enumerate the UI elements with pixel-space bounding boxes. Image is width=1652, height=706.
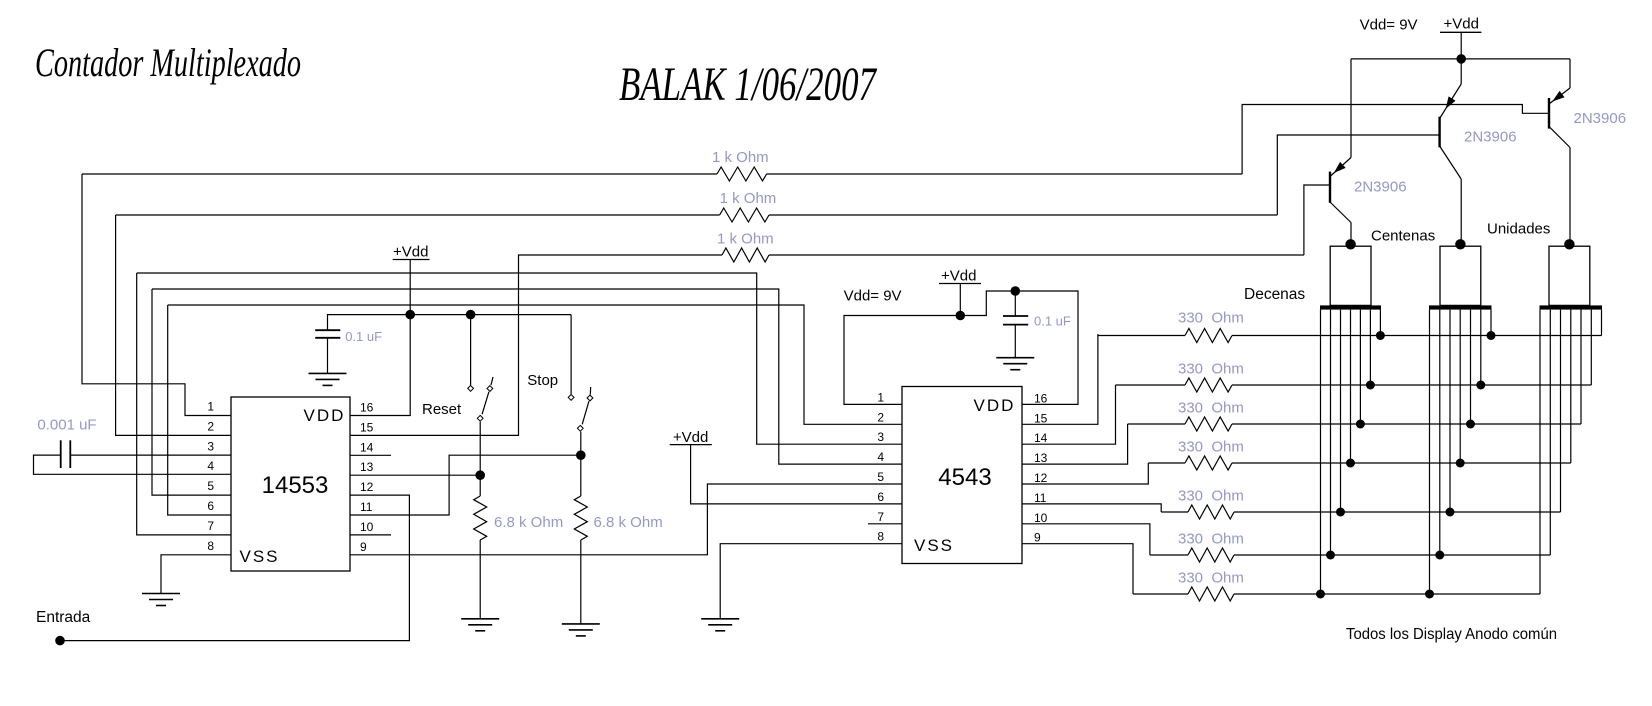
IC U2 4543 body xyxy=(902,387,1022,564)
wire +Vdd to node xyxy=(409,260,411,315)
wire U1 pin1 to row A xyxy=(82,174,231,416)
svg-text:7: 7 xyxy=(877,510,884,524)
wire Vdd node to C3 rail xyxy=(960,291,1078,404)
transistor Q1 2N3906 xyxy=(1330,158,1351,223)
svg-text:330 Ohm: 330 Ohm xyxy=(1178,531,1244,548)
svg-text:330 Ohm: 330 Ohm xyxy=(1178,310,1244,327)
svg-text:12: 12 xyxy=(360,480,374,494)
svg-text:9: 9 xyxy=(1034,531,1041,545)
svg-text:3: 3 xyxy=(207,439,214,453)
wire row6 right xyxy=(1234,554,1550,556)
ground R4 xyxy=(461,619,499,631)
wire U1 pin15 to row C xyxy=(350,255,722,435)
svg-text:16: 16 xyxy=(1034,391,1048,405)
svg-text:+Vdd: +Vdd xyxy=(673,429,708,446)
capacitor C1 0.001 uF xyxy=(61,440,71,468)
svg-text:1 k Ohm: 1 k Ohm xyxy=(717,231,774,248)
ground C2 xyxy=(309,373,347,385)
svg-text:BALAK 1/06/2007: BALAK 1/06/2007 xyxy=(619,58,877,111)
node row7 display1 xyxy=(1316,590,1325,599)
svg-text:11: 11 xyxy=(360,500,373,514)
node Entrada xyxy=(55,636,65,646)
svg-text:6: 6 xyxy=(207,499,214,513)
DS1 Decenas display xyxy=(1320,246,1381,309)
label Reset xyxy=(422,401,462,418)
node row5 display2 xyxy=(1446,508,1455,517)
svg-text:7: 7 xyxy=(207,519,214,533)
DS2 display pins xyxy=(1430,310,1492,594)
capacitor C2 0.1 uF xyxy=(315,330,340,338)
node Vdd rail xyxy=(1456,54,1466,64)
wire U2 pin9 to row7 xyxy=(1022,544,1133,594)
svg-text:Entrada: Entrada xyxy=(36,609,91,626)
wire row C right xyxy=(769,254,1304,256)
resistor R4 6.8 k Ohm xyxy=(474,496,487,540)
wire U2 pin1 to Vdd rail xyxy=(844,316,960,405)
svg-text:VDD: VDD xyxy=(974,396,1016,415)
wire row2 left xyxy=(1116,384,1186,386)
svg-text:2N3906: 2N3906 xyxy=(1574,110,1627,127)
svg-text:4: 4 xyxy=(877,450,884,464)
Q1 label 2N3906 xyxy=(1354,179,1407,196)
wire row F to U2 pin2 xyxy=(168,305,902,424)
DS2 display anode dot xyxy=(1455,239,1465,249)
svg-text:+Vdd: +Vdd xyxy=(393,244,428,261)
wire C2 to ground xyxy=(327,338,329,374)
Q3 label 2N3906 xyxy=(1574,110,1627,127)
svg-text:330 Ohm: 330 Ohm xyxy=(1178,400,1244,417)
node R5 junction xyxy=(576,450,586,460)
label Unidades xyxy=(1487,221,1550,238)
wire Q2 collector xyxy=(1460,179,1462,244)
label Vdd= 9V U2 xyxy=(844,288,902,305)
svg-text:15: 15 xyxy=(1034,411,1048,425)
wire Q1 emitter xyxy=(1350,59,1352,158)
wire U1 pin2 to row B xyxy=(116,215,231,435)
wire +Vdd to U2 pin6 xyxy=(691,445,902,504)
svg-text:+Vdd: +Vdd xyxy=(941,268,976,285)
wire U2 pin11 to row5 xyxy=(1022,504,1161,512)
svg-text:1: 1 xyxy=(207,400,214,414)
wire row7 right xyxy=(1234,593,1540,595)
svg-text:9: 9 xyxy=(360,540,367,554)
power +Vdd top xyxy=(1440,16,1481,33)
R8 value label xyxy=(1178,400,1244,417)
switch SW2 Stop xyxy=(568,387,593,431)
resistor R11 330 Ohm xyxy=(1188,548,1234,562)
svg-text:Vdd= 9V: Vdd= 9V xyxy=(844,288,902,305)
R6 value label xyxy=(1178,310,1244,327)
title Contador Multiplexado xyxy=(35,40,301,85)
R5 value label xyxy=(594,514,663,531)
svg-text:8: 8 xyxy=(207,539,214,553)
node C3 top xyxy=(1011,286,1021,296)
svg-text:13: 13 xyxy=(1034,451,1048,465)
wire U1 pin7 to row D xyxy=(137,273,231,535)
svg-text:2N3906: 2N3906 xyxy=(1354,179,1407,196)
svg-text:2: 2 xyxy=(877,410,884,424)
node Vdd U2 xyxy=(956,311,966,321)
U2 pin numbers xyxy=(877,390,1047,544)
svg-text:5: 5 xyxy=(877,470,884,484)
resistor R2 1 k Ohm xyxy=(720,208,769,222)
svg-text:Unidades: Unidades xyxy=(1487,221,1550,238)
transistor Q3 2N3906 xyxy=(1549,88,1570,148)
wire row E to U2 pin4 xyxy=(152,289,902,464)
capacitor C3 0.1 uF xyxy=(1003,316,1028,325)
svg-text:14553: 14553 xyxy=(262,472,329,499)
wire row6 left xyxy=(1150,554,1188,556)
wire U1 pin8 VSS xyxy=(161,555,231,594)
node Reset branch xyxy=(466,310,476,320)
wire U2 pin10 to row6 xyxy=(1022,524,1150,555)
svg-text:1 k Ohm: 1 k Ohm xyxy=(720,190,777,207)
svg-text:0.1 uF: 0.1 uF xyxy=(345,329,382,344)
C1 value label xyxy=(37,417,96,434)
node row2 display1 xyxy=(1366,381,1375,390)
DS1 Decenas display pins xyxy=(1321,310,1381,594)
node row4 display1 xyxy=(1346,459,1355,468)
wire row4 left xyxy=(1148,462,1185,464)
node row6 display1 xyxy=(1326,551,1335,560)
svg-text:330 Ohm: 330 Ohm xyxy=(1178,488,1244,505)
svg-text:14: 14 xyxy=(1034,431,1048,445)
wire Vdd rail to C2 xyxy=(328,315,572,331)
DS3 display xyxy=(1540,246,1603,309)
svg-text:Decenas: Decenas xyxy=(1244,286,1305,303)
svg-text:5: 5 xyxy=(207,479,214,493)
wire Stop lower to node xyxy=(580,432,582,456)
node row7 display2 xyxy=(1425,590,1434,599)
wire row3 left xyxy=(1128,423,1185,425)
svg-text:6.8 k Ohm: 6.8 k Ohm xyxy=(494,514,563,531)
svg-text:Reset: Reset xyxy=(422,401,462,418)
svg-text:2: 2 xyxy=(207,419,214,433)
node row4 display2 xyxy=(1456,459,1465,468)
wire C3 to ground xyxy=(1014,325,1016,358)
wire U1 pin13 xyxy=(350,474,480,476)
wire R4 to ground xyxy=(479,540,481,619)
power +Vdd U2 xyxy=(939,268,981,285)
wire U1 pin16 VDD xyxy=(350,315,410,416)
wire row B to Q2 base xyxy=(1277,135,1438,215)
wire row1 left xyxy=(1098,335,1185,337)
svg-text:15: 15 xyxy=(360,420,374,434)
svg-text:11: 11 xyxy=(1034,491,1047,505)
DS2 display xyxy=(1429,246,1492,309)
wire row A left xyxy=(82,173,717,175)
node row6 display2 xyxy=(1435,551,1444,560)
wire Entrada to U1 pin12 xyxy=(60,495,409,640)
wire row C to Q1 base xyxy=(1304,185,1329,255)
node row2 display2 xyxy=(1476,381,1485,390)
wire U2 pin7 stub xyxy=(868,523,902,525)
power +Vdd U2 pin6 xyxy=(670,429,712,446)
wire row7 left xyxy=(1133,593,1188,595)
node row1 display1 xyxy=(1376,331,1385,340)
resistor R9 330 Ohm xyxy=(1185,456,1232,470)
svg-text:8: 8 xyxy=(877,530,884,544)
R3 value label xyxy=(717,231,774,248)
DS3 display pins xyxy=(1540,310,1602,594)
switch SW1 Reset xyxy=(468,377,493,421)
wire U1 pin14 stub xyxy=(350,454,391,456)
wire U2 pin13 to row3 xyxy=(1022,424,1128,464)
wire R5 to ground xyxy=(580,540,582,624)
wire Vdd top rail xyxy=(1351,58,1570,60)
node row3 display1 xyxy=(1356,420,1365,429)
DS3 display anode dot xyxy=(1564,239,1574,249)
node +Vdd U1 xyxy=(405,310,415,320)
wire U2 pin15 to row1 xyxy=(1022,334,1098,424)
svg-text:VDD: VDD xyxy=(304,406,346,425)
wire U1 pin5 to row E xyxy=(152,289,231,495)
svg-text:VSS: VSS xyxy=(914,536,954,555)
Q2 label 2N3906 xyxy=(1464,129,1517,146)
U1 pin numbers xyxy=(207,400,373,554)
DS1 Decenas display anode dot xyxy=(1345,239,1355,249)
node U1 pin13 junction xyxy=(475,470,485,480)
svg-text:330 Ohm: 330 Ohm xyxy=(1178,439,1244,456)
resistor R1 1 k Ohm xyxy=(717,167,767,181)
wire U1 pin9 to U2 pin5 xyxy=(350,484,902,555)
svg-text:+Vdd: +Vdd xyxy=(1444,16,1479,33)
svg-text:330 Ohm: 330 Ohm xyxy=(1178,361,1244,378)
label Vdd= 9V top xyxy=(1360,17,1418,34)
svg-text:16: 16 xyxy=(360,401,374,415)
ground C3 xyxy=(996,358,1034,370)
svg-text:2N3906: 2N3906 xyxy=(1464,129,1517,146)
svg-text:10: 10 xyxy=(360,520,374,534)
R12 value label xyxy=(1178,570,1244,587)
title BALAK 1/06/2007 xyxy=(619,58,877,111)
ground R5 xyxy=(562,624,600,636)
wire U1 pin10 stub xyxy=(350,534,391,536)
R7 value label xyxy=(1178,361,1244,378)
resistor R10 330 Ohm xyxy=(1188,505,1234,519)
resistor R7 330 Ohm xyxy=(1185,378,1232,392)
svg-text:Contador Multiplexado: Contador Multiplexado xyxy=(35,40,301,85)
wire Q1 collector xyxy=(1350,223,1352,245)
svg-text:14: 14 xyxy=(360,440,374,454)
ground U1 VSS xyxy=(142,594,180,606)
wire row4 right xyxy=(1232,462,1571,464)
wire pin13 node to R4 xyxy=(479,475,481,496)
svg-text:12: 12 xyxy=(1034,471,1048,485)
wire Reset lower to node xyxy=(479,422,481,476)
svg-text:4: 4 xyxy=(207,459,214,473)
wire row B right xyxy=(769,214,1277,216)
svg-text:Vdd= 9V: Vdd= 9V xyxy=(1360,17,1418,34)
wire row1 right xyxy=(1232,335,1602,337)
svg-text:0.001 uF: 0.001 uF xyxy=(37,417,96,434)
wire U1 pin3 to C1 xyxy=(70,454,231,456)
resistor R12 330 Ohm xyxy=(1188,587,1234,601)
wire U1 pin6 to row F xyxy=(168,305,231,515)
label Decenas xyxy=(1244,286,1305,303)
resistor R3 1 k Ohm xyxy=(722,248,769,262)
resistor R5 6.8 k Ohm xyxy=(574,496,587,540)
svg-text:Todos los Display Anodo común: Todos los Display Anodo común xyxy=(1346,626,1557,643)
R1 value label xyxy=(712,149,769,166)
svg-text:6.8 k Ohm: 6.8 k Ohm xyxy=(594,514,663,531)
C3 value label xyxy=(1034,314,1071,329)
svg-text:4543: 4543 xyxy=(938,464,991,491)
node row5 display1 xyxy=(1336,508,1345,517)
R2 value label xyxy=(720,190,777,207)
node row3 display2 xyxy=(1466,420,1475,429)
svg-text:VSS: VSS xyxy=(239,547,279,566)
wire row5 left xyxy=(1161,511,1188,513)
svg-text:0.1 uF: 0.1 uF xyxy=(1034,314,1071,329)
R4 value label xyxy=(494,514,563,531)
R11 value label xyxy=(1178,531,1244,548)
svg-text:Centenas: Centenas xyxy=(1371,228,1435,245)
power +Vdd U1 xyxy=(393,244,430,261)
wire Q2 emitter xyxy=(1460,59,1462,84)
wire U2 pin14 to row2 xyxy=(1022,385,1116,444)
wire row2 right xyxy=(1232,384,1591,386)
label Stop xyxy=(527,372,558,389)
wire U1 pin11 route xyxy=(350,455,581,515)
svg-text:13: 13 xyxy=(360,460,374,474)
resistor R8 330 Ohm xyxy=(1185,417,1232,431)
svg-text:10: 10 xyxy=(1034,511,1048,525)
svg-text:1: 1 xyxy=(877,390,884,404)
wire Q3 collector xyxy=(1569,148,1571,245)
IC U1 14553 body xyxy=(231,397,350,571)
R10 value label xyxy=(1178,488,1244,505)
wire Q3 emitter xyxy=(1569,59,1571,88)
wire row3 right xyxy=(1232,423,1581,425)
wire Stop upper xyxy=(570,315,572,394)
wire R5 node to R5 xyxy=(580,455,582,496)
wire row D to U2 pin3 xyxy=(137,273,902,444)
wire U2 pin12 to row4 xyxy=(1022,463,1148,484)
label Centenas xyxy=(1371,228,1435,245)
label Todos los Display Anodo comun xyxy=(1346,626,1557,643)
svg-text:330 Ohm: 330 Ohm xyxy=(1178,570,1244,587)
svg-text:1 k Ohm: 1 k Ohm xyxy=(712,149,769,166)
node row1 display2 xyxy=(1487,331,1496,340)
wire +Vdd top stem xyxy=(1460,32,1462,59)
wire C1 to U1 pin4 xyxy=(34,455,232,474)
wire row A right xyxy=(767,173,1243,175)
wire +Vdd stem U2 xyxy=(959,284,961,316)
wire row B left xyxy=(116,214,720,216)
resistor R6 330 Ohm xyxy=(1185,329,1232,343)
ground U2 VSS xyxy=(701,619,739,631)
wire row5 right xyxy=(1234,511,1561,513)
svg-text:3: 3 xyxy=(877,430,884,444)
wire U2 pin8 VSS xyxy=(720,544,902,619)
R9 value label xyxy=(1178,439,1244,456)
svg-text:6: 6 xyxy=(877,490,884,504)
wire Reset upper xyxy=(470,315,472,385)
wire row A to Q3 base xyxy=(1242,105,1548,175)
C2 value label xyxy=(345,329,382,344)
wire C3 stem xyxy=(1014,291,1016,316)
transistor Q2 2N3906 xyxy=(1440,84,1462,179)
label Entrada xyxy=(36,609,91,626)
svg-text:Stop: Stop xyxy=(527,372,558,389)
